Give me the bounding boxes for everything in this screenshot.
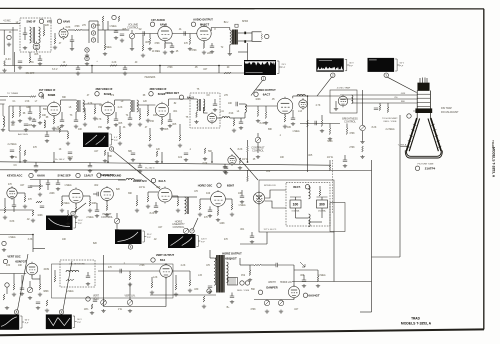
wire riser <box>161 152 163 162</box>
svg-text:1 MEG: 1 MEG <box>64 185 71 187</box>
wire <box>68 29 75 31</box>
capacitor C8 <box>38 59 42 60</box>
resistor R77 <box>24 150 26 156</box>
waveform callout node 6 <box>128 245 132 249</box>
svg-text:MODELS T-1853, A: MODELS T-1853, A <box>492 147 496 178</box>
wire <box>210 257 214 259</box>
wire <box>119 126 121 133</box>
potentiometer horiz linearity R56 <box>183 228 189 234</box>
capacitor C16 <box>168 120 172 121</box>
tube V8 6AL5 detector <box>207 112 216 124</box>
wire AC line <box>265 190 286 198</box>
svg-text:P-P: P-P <box>400 66 404 68</box>
wire <box>209 206 211 210</box>
ground <box>128 123 132 127</box>
tube ref 12AU7 <box>76 173 80 177</box>
wire <box>103 255 105 307</box>
wire <box>179 124 181 135</box>
dashed net lead <box>332 160 334 214</box>
capacitor C56 <box>32 120 36 121</box>
ground <box>150 291 154 295</box>
capacitor C26 <box>291 118 295 119</box>
svg-text:18 V: 18 V <box>78 220 83 222</box>
svg-text:TO TUNER: TO TUNER <box>7 93 19 95</box>
wire <box>280 299 282 302</box>
wire <box>251 232 253 236</box>
capacitor C25 <box>224 167 228 168</box>
svg-text:B+ 140 V.: B+ 140 V. <box>55 159 65 161</box>
wire plate V9 <box>293 95 308 97</box>
capacitor C54 <box>302 280 306 281</box>
svg-text:RECT.: RECT. <box>293 186 301 189</box>
svg-text:2.7K: 2.7K <box>316 105 321 107</box>
ground <box>83 123 87 127</box>
wire <box>17 192 25 194</box>
svg-text:1ST VIDEO IF: 1ST VIDEO IF <box>39 88 56 92</box>
wire <box>97 21 99 43</box>
capacitor C35 <box>40 206 44 207</box>
wire <box>112 29 120 31</box>
tube ref 6S4 <box>151 258 155 262</box>
wire <box>266 299 268 302</box>
resistor R88 <box>317 276 319 282</box>
wire <box>8 106 10 131</box>
wire <box>115 30 117 31</box>
oscillator transformer T6 core <box>186 197 188 214</box>
resistor R53 <box>199 204 201 210</box>
ground <box>320 129 324 133</box>
wire <box>321 197 323 200</box>
wire <box>362 131 364 140</box>
wire <box>82 29 90 31</box>
wire <box>147 192 149 196</box>
ground <box>256 119 260 123</box>
ground <box>20 292 24 296</box>
ground <box>148 47 152 51</box>
svg-text:56K: 56K <box>43 109 48 111</box>
svg-text:120 V: 120 V <box>201 239 207 241</box>
capacitor C44 <box>68 152 72 153</box>
capacitor C31 <box>97 192 98 196</box>
tube V21 6AX4GT damper <box>288 285 299 299</box>
potentiometer height R50 <box>114 218 120 224</box>
wire <box>29 52 31 57</box>
resistor R87 <box>249 270 251 276</box>
wire <box>172 195 178 197</box>
svg-text:TRAD: TRAD <box>411 317 421 321</box>
ground <box>3 216 7 220</box>
resistor R45 <box>24 196 26 202</box>
resistor R49 cathode <box>106 205 108 211</box>
peaking coil L2 <box>222 117 230 118</box>
capacitor C53 <box>208 286 212 287</box>
svg-text:1 MEG: 1 MEG <box>8 237 15 239</box>
capacitor C11 <box>28 112 32 113</box>
svg-text:.0039: .0039 <box>43 269 49 271</box>
module box phase det filter <box>330 203 345 232</box>
resistor R68 <box>189 280 191 286</box>
waveform callout node 7 <box>190 229 194 233</box>
callout leader 8 <box>18 254 29 310</box>
tube ref 6K6GT <box>191 22 195 26</box>
resistor R13 decoupling <box>60 65 67 67</box>
wire <box>231 293 233 297</box>
wire <box>61 112 63 120</box>
resistor R57 <box>4 207 6 213</box>
svg-text:TP2: TP2 <box>110 95 115 97</box>
junction <box>307 95 309 97</box>
wire grid vert out <box>98 270 160 272</box>
resistor R29 <box>179 135 181 141</box>
wire plate V5 <box>61 99 76 101</box>
wire CRT lead green <box>340 94 417 96</box>
wire <box>31 275 33 279</box>
capacitor C32 <box>154 206 158 207</box>
waveform callout node 5 <box>71 211 75 215</box>
wire <box>147 105 149 110</box>
resistor R54 <box>231 204 233 210</box>
wire grid V9 <box>245 105 277 107</box>
node B+ audio <box>112 15 116 19</box>
socket X pattern <box>255 194 263 202</box>
ground <box>2 248 6 252</box>
wire <box>87 272 89 276</box>
wire <box>199 199 201 204</box>
wire yoke stub <box>400 146 409 148</box>
capacitor C47 <box>42 94 43 98</box>
ground <box>279 310 283 314</box>
ground <box>228 52 232 56</box>
ground <box>66 142 70 146</box>
ground <box>135 209 139 213</box>
svg-text:.047: .047 <box>94 151 99 153</box>
wire <box>159 66 161 74</box>
IF transformer T3 secondary <box>83 100 85 112</box>
resistor R37 load <box>307 120 309 127</box>
svg-text:47K: 47K <box>204 217 209 219</box>
wire <box>303 275 305 280</box>
ground <box>60 124 64 128</box>
resistor R28 <box>149 135 151 141</box>
tube V17 6SN7 horiz osc <box>211 190 226 208</box>
wire <box>120 29 129 31</box>
svg-text:INTERLOCK: INTERLOCK <box>264 185 277 187</box>
wire <box>164 41 166 43</box>
svg-text:6AU6: 6AU6 <box>37 174 45 178</box>
wire <box>148 191 158 193</box>
ground <box>283 125 287 129</box>
wire <box>19 106 21 110</box>
choke L9 filter <box>309 214 311 227</box>
ground <box>328 137 332 141</box>
ground <box>256 155 260 159</box>
ground <box>213 108 217 112</box>
potentiometer vert hold R69 <box>101 300 107 306</box>
svg-text:.005: .005 <box>164 129 169 131</box>
ground <box>76 72 80 76</box>
transformer T1 secondary winding <box>39 27 41 43</box>
wire <box>240 243 267 245</box>
ground <box>360 140 364 144</box>
svg-text:BLU: BLU <box>224 22 229 24</box>
ground <box>138 170 142 174</box>
ground <box>120 39 124 43</box>
svg-text:HORIZ LIN.: HORIZ LIN. <box>280 282 292 284</box>
potentiometer volume control R6 <box>129 33 135 39</box>
svg-text:.005: .005 <box>34 54 39 56</box>
wire <box>46 131 48 135</box>
ground <box>155 160 159 164</box>
wire <box>189 271 191 280</box>
ground <box>10 155 14 159</box>
wire vert sync feed <box>0 234 33 236</box>
wire <box>13 198 15 205</box>
wire <box>200 198 211 200</box>
bracket W7 <box>197 236 201 247</box>
svg-text:4 V: 4 V <box>114 137 118 139</box>
module box sound IF / ratio detector <box>20 18 51 52</box>
wire <box>362 90 364 124</box>
svg-text:10%: 10% <box>84 309 89 311</box>
svg-text:680K: 680K <box>43 291 49 293</box>
speaker SP1 voice coil <box>261 34 264 40</box>
svg-text:1K: 1K <box>57 127 60 129</box>
wire <box>24 27 26 33</box>
svg-text:1/2 W.: 1/2 W. <box>242 159 249 161</box>
wire <box>24 193 26 196</box>
transformer T1 core <box>33 27 35 43</box>
wire <box>102 22 104 30</box>
wire <box>239 258 241 265</box>
node vert input <box>2 241 6 245</box>
ground <box>170 50 174 54</box>
wire <box>209 250 211 258</box>
tube V7 6CB6 3rd video IF <box>155 102 168 118</box>
wire to speaker <box>238 32 252 34</box>
capacitor C5 cathode bypass <box>170 46 174 47</box>
coil L7 trap <box>352 95 353 103</box>
svg-text:8.2K: 8.2K <box>150 213 155 215</box>
wire video to V9 <box>230 117 245 119</box>
wire riser <box>53 152 55 162</box>
wire <box>265 106 267 112</box>
capacitor C20 <box>45 135 49 136</box>
module box power transformer <box>286 183 330 227</box>
wire <box>335 101 337 107</box>
ground <box>28 117 32 121</box>
svg-text:HORIZ AFC: HORIZ AFC <box>133 179 147 183</box>
module box vertical section <box>52 264 174 298</box>
svg-text:AGC BUS: AGC BUS <box>18 133 28 136</box>
wire <box>32 235 34 253</box>
wire <box>60 130 68 132</box>
flyback transformer T7 core <box>216 255 224 293</box>
svg-text:68K: 68K <box>268 129 273 131</box>
svg-text:270K: 270K <box>349 147 355 149</box>
wire <box>177 196 179 200</box>
oscillator transformer T6 winding <box>185 197 187 214</box>
waveform callout node 3 <box>384 73 388 77</box>
svg-text:2ND VIDEO IF: 2ND VIDEO IF <box>95 87 112 91</box>
ground <box>210 50 214 54</box>
wire <box>32 278 40 280</box>
wire <box>9 96 30 98</box>
svg-text:SYNC SEP: SYNC SEP <box>57 174 70 178</box>
waveform photo W4 IF response <box>84 133 109 147</box>
wire <box>61 196 63 200</box>
resistor R71 <box>91 304 93 309</box>
svg-text:PHASE INV: PHASE INV <box>100 173 114 177</box>
resistor R76 <box>3 294 5 300</box>
ground <box>178 144 182 148</box>
svg-text:47K: 47K <box>108 267 113 269</box>
ground <box>141 54 145 58</box>
svg-text:4.5 MC TRAP: 4.5 MC TRAP <box>337 87 351 90</box>
svg-text:1 W.: 1 W. <box>118 309 123 311</box>
ground <box>24 128 28 132</box>
svg-text:AUDIO OUTPUT: AUDIO OUTPUT <box>193 18 213 22</box>
tube V16 horiz AFC <box>158 187 172 204</box>
yoke connector block <box>228 278 238 286</box>
wire <box>233 118 235 120</box>
detector transformer T5 primary <box>197 99 199 111</box>
capacitor C49 <box>28 186 32 187</box>
callout leader 9 <box>63 261 72 310</box>
svg-text:C60: C60 <box>266 171 271 173</box>
wire <box>114 100 116 105</box>
resistor R44 <box>39 184 41 190</box>
ground <box>31 219 35 223</box>
wire <box>229 45 231 53</box>
wire <box>294 269 318 271</box>
svg-text:SPKR: SPKR <box>242 21 249 23</box>
wire <box>295 208 297 218</box>
waveform callout node 1 <box>261 76 265 80</box>
svg-text:270K: 270K <box>167 67 173 69</box>
wire <box>12 27 14 66</box>
capacitor C41 <box>230 296 234 297</box>
svg-text:39K: 39K <box>128 193 133 195</box>
wire <box>171 43 173 46</box>
wire <box>161 117 163 119</box>
ground <box>334 107 338 111</box>
wire <box>71 35 73 40</box>
wire <box>89 162 91 165</box>
svg-text:DAMPER: DAMPER <box>266 286 277 290</box>
wire yoke jumper <box>372 256 401 258</box>
potentiometer horiz linearity R74 <box>278 300 284 306</box>
svg-text:C52: C52 <box>241 275 246 277</box>
wire <box>203 112 207 114</box>
wire <box>89 20 98 22</box>
svg-text:100K: 100K <box>91 203 97 205</box>
capacitor C21 <box>34 166 38 167</box>
bracket W8 <box>20 316 24 328</box>
wire <box>129 283 131 300</box>
wire <box>151 277 153 282</box>
tube ref 6CB6 <box>149 92 153 96</box>
svg-text:5%: 5% <box>30 62 33 64</box>
tube V2 6AV6 detector <box>59 27 68 39</box>
module box linearity network <box>60 260 95 287</box>
svg-text:P-P: P-P <box>147 237 151 239</box>
wire <box>13 274 15 285</box>
ground <box>202 305 206 309</box>
ground <box>130 47 134 51</box>
capacitor C57 <box>24 124 28 125</box>
speaker SP1 magnet <box>265 34 269 38</box>
wire <box>261 264 276 266</box>
ground <box>146 205 150 209</box>
choke L8 <box>309 186 311 199</box>
resistor R46 <box>61 200 63 206</box>
wire <box>240 264 254 266</box>
tube ref circle 6AX4GT <box>303 293 307 297</box>
wire to CRT cathode <box>308 95 341 97</box>
potentiometer vert size R92 <box>27 287 33 293</box>
ground <box>114 36 118 40</box>
resistor R80 <box>204 148 206 154</box>
resistor R67 <box>175 284 177 290</box>
wire vertical feed <box>307 96 309 172</box>
ground <box>194 120 198 124</box>
svg-text:8.2K: 8.2K <box>238 149 243 151</box>
capacitor C33 <box>208 210 212 211</box>
waveform photo W3 blanking <box>368 58 394 71</box>
tube V14 sync separator <box>69 188 83 205</box>
tube V20 vert output <box>160 263 172 278</box>
wire <box>218 66 220 74</box>
svg-text:P-P: P-P <box>201 242 205 244</box>
transformer T1 core <box>32 27 34 43</box>
svg-text:P-P: P-P <box>349 66 353 68</box>
capacitor C7 <box>210 46 214 47</box>
waveform photo W8 vert osc grid <box>0 315 19 329</box>
junction <box>107 161 109 163</box>
wire sound takeoff diagonal <box>230 148 258 180</box>
capacitor C24 <box>223 167 227 168</box>
resistor R23 cathode <box>161 119 163 125</box>
tube V1 ratio det section <box>33 42 40 52</box>
wire <box>295 197 297 200</box>
wire <box>333 232 335 282</box>
wire <box>39 106 41 112</box>
svg-text:6K6GT: 6K6GT <box>200 23 210 27</box>
bracket W1 <box>277 61 282 74</box>
ground <box>1 128 5 132</box>
svg-text:.001: .001 <box>240 229 245 231</box>
resistor R90 <box>12 112 14 118</box>
wire <box>13 207 15 213</box>
wire <box>139 108 141 114</box>
node test point <box>86 297 90 301</box>
wire <box>240 118 242 122</box>
capacitor C46 <box>184 153 188 154</box>
tube ref 6AU6 <box>29 173 33 177</box>
svg-text:2 MEG: 2 MEG <box>86 217 93 219</box>
ground <box>114 123 118 127</box>
IF transformer T3 core <box>79 100 81 112</box>
wire <box>317 196 328 198</box>
potentiometer contrast R36 <box>255 137 261 143</box>
resistor R10 grid <box>189 38 191 45</box>
ground <box>85 62 89 66</box>
junction <box>218 65 220 67</box>
wire riser <box>211 152 213 162</box>
svg-text:TO HOR./VERT.: TO HOR./VERT. <box>382 118 398 120</box>
wire <box>104 30 106 44</box>
ground <box>101 309 105 313</box>
